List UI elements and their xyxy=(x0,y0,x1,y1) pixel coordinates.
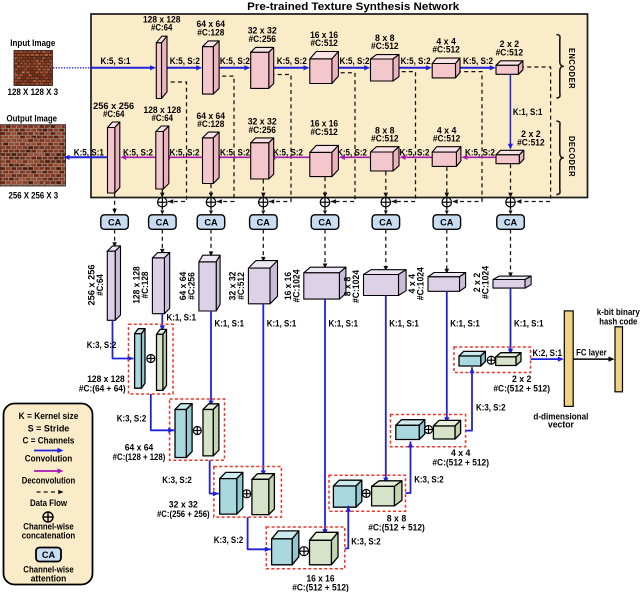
svg-text:K:1, S:1: K:1, S:1 xyxy=(450,319,480,329)
data flow concat 8 to CA 8 xyxy=(509,207,513,214)
svg-text:#C:128: #C:128 xyxy=(197,27,224,37)
svg-text:K:5, S:2: K:5, S:2 xyxy=(337,147,367,157)
svg-text:#C:64: #C:64 xyxy=(103,109,125,119)
data flow CA 2 to feature map 2 xyxy=(160,230,165,255)
decoder deconv box D4 32 x 32 #C:256 xyxy=(251,138,274,179)
channel-wise attention box CA 2 xyxy=(149,215,177,230)
skip connection encoder E6 to concat 7 xyxy=(453,72,483,204)
data flow concat 4 to CA 4 xyxy=(261,207,265,214)
svg-text:CA: CA xyxy=(42,550,56,560)
svg-text:#C:256: #C:256 xyxy=(248,125,276,135)
data flow CA 5 to feature map 5 xyxy=(323,230,328,269)
svg-text:K:5, S:2: K:5, S:2 xyxy=(273,147,303,157)
svg-text:K:5, S:1: K:5, S:1 xyxy=(101,56,131,66)
svg-text:K:1, S:1: K:1, S:1 xyxy=(267,319,297,329)
decoder deconv box D1 256 x 256 #C:64 xyxy=(108,122,120,193)
encoder brace xyxy=(556,35,563,99)
svg-text:K:5, S:2: K:5, S:2 xyxy=(220,147,250,157)
encoder conv box E3 32 x 32 #C:256 xyxy=(251,47,274,88)
legend data flow arrow xyxy=(37,490,64,495)
concat block 7 oplus xyxy=(487,356,495,364)
concat block 2 oplus xyxy=(193,427,201,435)
svg-text:K:1, S:1: K:1, S:1 xyxy=(514,319,544,329)
svg-text:CA: CA xyxy=(257,217,271,227)
svg-text:concatenation: concatenation xyxy=(22,531,75,541)
concat block 1 teal cuboid xyxy=(135,329,145,389)
network background panel xyxy=(91,14,588,198)
legend deconvolution arrow xyxy=(34,468,64,473)
attended feature map F3 64 x 64 #C:256 xyxy=(199,255,220,311)
data flow decoder D8 to concat 8 xyxy=(508,164,513,198)
svg-text:Output Image: Output Image xyxy=(7,114,58,124)
svg-text:K:1, S:1: K:1, S:1 xyxy=(329,319,359,329)
deconv arrow D5 to D4, K:5 S:2 xyxy=(269,155,310,160)
deconv arrow D4 to D3, K:5 S:2 xyxy=(214,155,251,160)
svg-text:K:3, S:2: K:3, S:2 xyxy=(414,475,444,485)
conv arrow F3 down to concat block 2 green, K:1 S:1 xyxy=(208,311,213,407)
conv arrow E6 to E7, K:5 S:2 xyxy=(460,65,495,70)
data flow concat 7 to CA 7 xyxy=(445,207,449,214)
conv arrow F4 down to concat block 3 green, K:1 S:1 xyxy=(261,304,266,477)
decoder deconv box D3 64 x 64 #C:128 xyxy=(203,132,220,183)
svg-text:K:5, S:2: K:5, S:2 xyxy=(170,147,200,157)
legend box xyxy=(4,404,93,585)
svg-text:K:3, S:2: K:3, S:2 xyxy=(162,475,192,485)
skip connection encoder E4 to concat 5 xyxy=(331,73,355,204)
concat block 3 green cuboid xyxy=(252,474,275,515)
decoder brace xyxy=(556,121,563,195)
svg-text:CA: CA xyxy=(156,217,170,227)
svg-text:#C:64: #C:64 xyxy=(95,274,105,296)
data flow decoder D5 to concat 5 xyxy=(323,177,328,198)
svg-text:K:5, S:2: K:5, S:2 xyxy=(340,56,370,66)
concat block 5 red dashed box xyxy=(329,475,406,511)
encoder conv box E5 8 x 8 #C:512 xyxy=(371,55,400,81)
data flow concat 6 to CA 6 xyxy=(384,207,388,214)
svg-text:K:5, S:2: K:5, S:2 xyxy=(400,147,430,157)
svg-text:K:5, S:2: K:5, S:2 xyxy=(463,56,493,66)
legend CA box xyxy=(36,548,61,562)
svg-text:K:5, S:2: K:5, S:2 xyxy=(123,147,153,157)
concat block 5 teal cuboid xyxy=(333,480,361,507)
encoder conv box E4 16 x 16 #C:512 xyxy=(310,52,339,84)
concat block 3 red dashed box xyxy=(214,467,282,518)
svg-text:K:1, S:1: K:1, S:1 xyxy=(513,107,543,117)
channel concat oplus 5 xyxy=(320,198,329,207)
data flow concat 5 to CA 5 xyxy=(323,207,327,214)
input image xyxy=(14,51,53,86)
svg-text:#C:64: #C:64 xyxy=(151,23,173,33)
svg-text:vector: vector xyxy=(548,420,574,430)
svg-text:#C:128: #C:128 xyxy=(140,271,150,298)
conv arrow block2 to block3, K:3 S:2 xyxy=(210,460,219,496)
svg-text:FC layer: FC layer xyxy=(576,348,607,358)
conv arrow F7 down to concat block 6 green, K:1 S:1 xyxy=(444,291,449,423)
svg-text:K:5, S:1: K:5, S:1 xyxy=(74,147,104,157)
skip connection encoder E1 to concat 2 xyxy=(164,82,187,204)
skip connection encoder E7 to concat 8 xyxy=(516,67,550,204)
svg-text:K:1, S:1: K:1, S:1 xyxy=(215,319,245,329)
conv arrow F2 down to concat block 1 green, K:1 S:1 xyxy=(160,314,165,332)
svg-text:#C:(512 + 512): #C:(512 + 512) xyxy=(368,523,425,533)
svg-text:hash code: hash code xyxy=(599,316,637,326)
data flow CA 8 to feature map 8 xyxy=(508,230,513,278)
conv arrow F6 down to concat block 5 green, K:1 S:1 xyxy=(383,296,388,484)
conv arrow block5 to block6, K:3 S:2 xyxy=(406,442,414,494)
conv arrow F8 down to concat block 7 green, K:1 S:1 xyxy=(508,288,513,355)
svg-text:K:5, S:2: K:5, S:2 xyxy=(401,56,431,66)
channel concat oplus 2 xyxy=(158,198,167,207)
conv arrow E1 to E2, K:5 S:2 xyxy=(167,65,202,70)
svg-text:#C:512: #C:512 xyxy=(433,134,461,144)
svg-text:K:3, S:2: K:3, S:2 xyxy=(117,414,147,424)
svg-text:#C:512: #C:512 xyxy=(310,127,338,137)
channel concat oplus 7 xyxy=(442,198,451,207)
data flow concat 2 to CA 2 xyxy=(160,207,164,214)
encoder conv box E2 64 x 64 #C:128 xyxy=(203,41,220,94)
concat block 2 red dashed box xyxy=(170,399,225,460)
channel-wise attention box CA 3 xyxy=(197,215,225,230)
svg-text:Data Flow: Data Flow xyxy=(30,498,67,508)
concat block 2 teal cuboid xyxy=(175,404,192,458)
svg-text:K:2, S:1: K:2, S:1 xyxy=(533,348,563,358)
skip connection encoder E2 to concat 3 xyxy=(215,76,234,204)
svg-text:K:1, S:1: K:1, S:1 xyxy=(167,313,197,323)
concat block 6 teal cuboid xyxy=(396,420,425,440)
data flow decoder D2 to concat 2 xyxy=(160,190,165,198)
svg-text:CA: CA xyxy=(440,217,454,227)
input dotted line xyxy=(53,67,90,69)
svg-text:attention: attention xyxy=(31,574,67,584)
deconv arrow D7 to D6, K:5 S:2 xyxy=(400,155,433,160)
svg-text:DECODER: DECODER xyxy=(567,136,577,177)
data flow decoder D3 to concat 3 xyxy=(209,184,214,198)
skip connection encoder E5 to concat 6 xyxy=(392,72,416,204)
svg-text:#C:512: #C:512 xyxy=(371,134,399,144)
concat block 1 oplus xyxy=(147,355,155,363)
svg-text:#C:512: #C:512 xyxy=(432,45,460,55)
concat block 1 green cuboid xyxy=(157,329,167,390)
channel-wise attention box CA 6 xyxy=(372,215,400,230)
data flow decoder D7 to concat 7 xyxy=(445,167,450,198)
concat block 7 red dashed box xyxy=(454,347,531,373)
channel concat oplus 8 xyxy=(506,198,515,207)
skip connection encoder E3 to concat 4 xyxy=(269,75,291,204)
concat block 4 red dashed box xyxy=(266,527,345,569)
conv arrow F1 to concat block 1, K:3 S:2 xyxy=(113,320,134,361)
deconv arrow D3 to D2, K:5 S:2 xyxy=(164,155,203,160)
channel-wise attention box CA 7 xyxy=(433,215,461,230)
svg-text:#C:512: #C:512 xyxy=(517,137,545,147)
concat block 7 teal cuboid xyxy=(459,351,485,366)
data flow CA 7 to feature map 7 xyxy=(445,230,450,275)
svg-text:#C:128: #C:128 xyxy=(197,119,224,129)
legend convolution arrow xyxy=(34,448,64,453)
concat block 6 green cuboid xyxy=(433,420,460,439)
svg-text:K = Kernel size: K = Kernel size xyxy=(19,411,79,421)
attended feature map F6 8 x 8 #C:1024 xyxy=(364,270,407,296)
concat block 4 teal cuboid xyxy=(272,531,299,565)
concat block 4 green cuboid xyxy=(310,532,339,565)
d-dimensional vector bar xyxy=(564,311,573,407)
svg-text:K:5, S:2: K:5, S:2 xyxy=(277,56,307,66)
data flow CA 4 to feature map 4 xyxy=(261,230,266,263)
conv arrow E4 to E5, K:5 S:2 xyxy=(339,65,371,70)
svg-text:#C:512: #C:512 xyxy=(496,47,524,57)
svg-text:#C:512: #C:512 xyxy=(371,41,399,51)
conv arrow block4 to block5, K:3 S:2 xyxy=(345,506,351,549)
data flow decoder D1 to CA 1 xyxy=(112,194,117,215)
concat block 6 oplus xyxy=(425,426,433,434)
svg-text:#C:(128 + 128): #C:(128 + 128) xyxy=(113,452,166,462)
output image xyxy=(0,125,66,186)
conv arrow block7 to FC layer, K:2 S:1 xyxy=(531,357,564,362)
svg-text:k-bit binary: k-bit binary xyxy=(597,307,640,317)
svg-text:#C:(256 + 256): #C:(256 + 256) xyxy=(157,509,210,519)
svg-text:128 X 128 X 3: 128 X 128 X 3 xyxy=(8,87,59,97)
channel concat oplus 3 xyxy=(206,198,215,207)
svg-text:Convolution: Convolution xyxy=(25,453,73,463)
svg-text:Pre-trained Texture Synthesis: Pre-trained Texture Synthesis Network xyxy=(247,1,460,13)
svg-text:Deconvolution: Deconvolution xyxy=(22,476,75,486)
svg-text:Input Image: Input Image xyxy=(10,38,55,48)
channel-wise attention box CA 4 xyxy=(250,215,278,230)
svg-text:CA: CA xyxy=(204,217,218,227)
svg-text:ENCODER: ENCODER xyxy=(567,48,577,89)
svg-text:CA: CA xyxy=(318,217,332,227)
svg-text:#C:(64 + 64): #C:(64 + 64) xyxy=(79,384,126,394)
concat block 7 green cuboid xyxy=(496,353,521,366)
svg-text:K:5, S:2: K:5, S:2 xyxy=(220,56,250,66)
decoder deconv box D6 8 x 8 #C:512 xyxy=(371,147,400,171)
svg-text:K:5, S:2: K:5, S:2 xyxy=(465,147,495,157)
conv arrow block3 to block4, K:3 S:2 xyxy=(248,517,271,552)
data flow CA 6 to feature map 6 xyxy=(384,230,389,272)
conv arrow input to E1, K:5 S:1 xyxy=(90,65,156,70)
svg-text:#C:1024: #C:1024 xyxy=(416,267,426,300)
data flow decoder D6 to concat 6 xyxy=(384,172,389,198)
svg-text:CA: CA xyxy=(504,217,518,227)
concat block 4 oplus xyxy=(300,547,309,556)
svg-text:256 X 256 X 3: 256 X 256 X 3 xyxy=(9,190,59,200)
concat block 3 teal cuboid xyxy=(220,472,243,514)
channel concat oplus 4 xyxy=(259,198,268,207)
attended feature map F2 128 x 128 #C:128 xyxy=(152,253,169,314)
decoder deconv box D8 2 x 2 #C:512 xyxy=(496,150,524,163)
encoder conv box E6 4 x 4 #C:512 xyxy=(432,58,460,78)
svg-text:C = Channels: C = Channels xyxy=(23,436,75,446)
svg-text:#C:256: #C:256 xyxy=(186,272,196,300)
svg-text:#C:256: #C:256 xyxy=(248,34,276,44)
svg-text:CA: CA xyxy=(379,217,393,227)
deconv arrow D6 to D5, K:5 S:2 xyxy=(339,155,371,160)
output conv arrow D1 to output image, K:5 S:1 xyxy=(64,155,108,160)
concat block 5 green cuboid xyxy=(372,481,402,506)
concat block 5 oplus xyxy=(362,489,370,497)
concat block 3 oplus xyxy=(243,490,251,498)
conv arrow E7 down to D8, K:1 S:1 xyxy=(508,75,513,150)
svg-text:CA: CA xyxy=(108,217,122,227)
concat block 2 green cuboid xyxy=(203,404,219,456)
svg-text:K:5, S:2: K:5, S:2 xyxy=(170,56,200,66)
deconv arrow D2 to D1, K:5 S:2 xyxy=(120,155,156,160)
data flow decoder D4 to concat 4 xyxy=(261,180,266,198)
svg-text:#C:1024: #C:1024 xyxy=(481,266,491,299)
attended feature map F4 32 x 32 #C:512 xyxy=(248,261,277,304)
svg-text:K:1, S:1: K:1, S:1 xyxy=(389,319,419,329)
svg-text:#C:64: #C:64 xyxy=(152,113,174,123)
encoder conv box E1 128 x 128 #C:64 xyxy=(156,36,167,98)
svg-text:S = Stride: S = Stride xyxy=(28,424,70,434)
conv arrow E3 to E4, K:5 S:2 xyxy=(274,65,310,70)
channel-wise attention box CA 5 xyxy=(311,215,339,230)
svg-text:#C:(512 + 512): #C:(512 + 512) xyxy=(493,383,550,393)
conv arrow F5 down to concat block 4 green, K:1 S:1 xyxy=(322,299,327,535)
svg-text:#C:(512 + 512): #C:(512 + 512) xyxy=(432,457,489,467)
svg-text:K:3, S:2: K:3, S:2 xyxy=(214,535,244,545)
data flow CA 1 to feature map 1 xyxy=(112,230,117,248)
svg-text:K:3, S:2: K:3, S:2 xyxy=(351,536,381,546)
FC layer arrow xyxy=(573,357,614,362)
data flow CA 3 to feature map 3 xyxy=(209,230,214,257)
decoder deconv box D5 16 x 16 #C:512 xyxy=(310,145,339,176)
legend oplus xyxy=(43,512,53,522)
attended feature map F7 4 x 4 #C:1024 xyxy=(428,273,466,292)
svg-text:K:3, S:2: K:3, S:2 xyxy=(87,340,117,350)
attended feature map F8 2 x 2 #C:1024 xyxy=(493,276,531,288)
k-bit binary hash code bar xyxy=(615,327,623,392)
encoder conv box E7 2 x 2 #C:512 xyxy=(496,61,523,75)
conv arrow E5 to E6, K:5 S:2 xyxy=(399,65,432,70)
conv arrow block1 to block2, K:3 S:2 xyxy=(151,394,174,433)
channel-wise attention box CA 1 xyxy=(101,215,129,230)
svg-text:#C:512: #C:512 xyxy=(310,38,338,48)
channel-wise attention box CA 8 xyxy=(497,215,525,230)
conv arrow block6 to block7, K:3 S:2 xyxy=(466,367,475,430)
deconv arrow D8 to D7, K:5 S:2 xyxy=(461,155,496,160)
attended feature map F5 16 x 16 #C:1024 xyxy=(304,267,346,299)
conv arrow E2 to E3, K:5 S:2 xyxy=(219,65,250,70)
concat block 1 red dashed box xyxy=(129,324,174,394)
data flow concat 3 to CA 3 xyxy=(209,207,213,214)
svg-text:K:3, S:2: K:3, S:2 xyxy=(476,402,506,412)
svg-text:#C:512: #C:512 xyxy=(236,272,246,300)
decoder deconv box D2 128 x 128 #C:64 xyxy=(156,126,169,189)
attended feature map F1 256 x 256 #C:64 xyxy=(107,246,120,320)
svg-text:#C:1024: #C:1024 xyxy=(351,270,361,303)
concat block 6 red dashed box xyxy=(391,415,466,447)
svg-text:#C:(512 + 512): #C:(512 + 512) xyxy=(292,583,349,592)
svg-text:#C:1024: #C:1024 xyxy=(291,269,301,302)
decoder deconv box D7 4 x 4 #C:512 xyxy=(432,147,461,167)
channel concat oplus 6 xyxy=(381,198,390,207)
